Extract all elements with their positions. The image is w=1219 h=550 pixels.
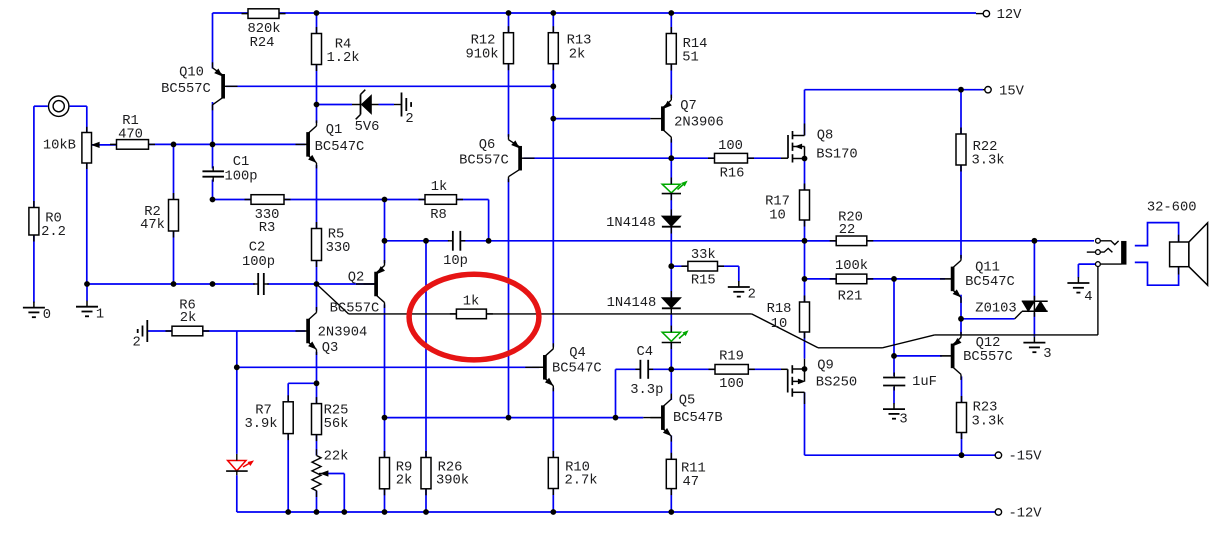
svg-text:10: 10: [771, 317, 788, 332]
svg-text:BC547C: BC547C: [552, 361, 602, 376]
svg-text:3.3k: 3.3k: [971, 413, 1004, 429]
svg-text:1uF: 1uF: [912, 375, 937, 390]
svg-text:3.9k: 3.9k: [244, 416, 277, 432]
svg-text:2N3904: 2N3904: [318, 325, 368, 340]
svg-text:33k: 33k: [691, 247, 716, 263]
svg-text:BC547B: BC547B: [673, 411, 723, 426]
svg-text:1k: 1k: [431, 179, 448, 195]
svg-text:C2: C2: [249, 240, 266, 255]
svg-text:470: 470: [118, 127, 143, 142]
svg-text:100p: 100p: [224, 169, 257, 184]
svg-text:R19: R19: [719, 349, 744, 364]
svg-text:10kB: 10kB: [43, 137, 76, 153]
svg-text:56k: 56k: [324, 416, 349, 432]
svg-text:R24: R24: [250, 36, 275, 51]
svg-text:2k: 2k: [180, 310, 197, 326]
svg-text:Q2: Q2: [348, 270, 365, 285]
svg-text:BC557C: BC557C: [161, 82, 211, 97]
svg-text:Q5: Q5: [679, 393, 696, 408]
svg-text:12V: 12V: [997, 8, 1023, 23]
svg-text:R18: R18: [767, 302, 792, 317]
svg-text:BS250: BS250: [816, 375, 857, 390]
svg-text:100: 100: [718, 139, 743, 154]
svg-text:Q6: Q6: [479, 138, 496, 153]
svg-text:47: 47: [683, 475, 700, 490]
svg-text:Q1: Q1: [326, 123, 343, 138]
svg-text:3: 3: [899, 413, 907, 428]
svg-text:R8: R8: [430, 208, 447, 223]
svg-text:3: 3: [1043, 347, 1051, 362]
svg-text:32-600: 32-600: [1147, 201, 1197, 216]
svg-text:5V6: 5V6: [355, 120, 380, 135]
svg-text:C4: C4: [637, 345, 654, 360]
svg-text:330: 330: [326, 241, 351, 256]
svg-text:4: 4: [1084, 290, 1092, 305]
svg-text:910k: 910k: [465, 46, 498, 62]
svg-text:15V: 15V: [999, 84, 1025, 99]
svg-text:R12: R12: [471, 33, 496, 48]
svg-text:100: 100: [719, 377, 744, 392]
svg-text:-15V: -15V: [1008, 450, 1042, 465]
svg-text:22k: 22k: [324, 448, 349, 464]
svg-text:BC557C: BC557C: [330, 301, 380, 316]
svg-text:22: 22: [839, 223, 856, 238]
svg-text:0: 0: [43, 308, 51, 323]
svg-text:2: 2: [405, 112, 413, 127]
svg-text:Q10: Q10: [179, 65, 204, 80]
svg-text:Q12: Q12: [976, 336, 1001, 351]
svg-text:R23: R23: [973, 400, 998, 415]
svg-text:R13: R13: [567, 33, 592, 48]
svg-text:1N4148: 1N4148: [606, 216, 656, 231]
svg-text:Q4: Q4: [569, 346, 586, 361]
svg-text:2: 2: [133, 335, 141, 350]
svg-text:10: 10: [769, 208, 786, 223]
svg-text:R3: R3: [259, 221, 276, 236]
svg-text:Q7: Q7: [680, 99, 697, 114]
svg-text:Z0103: Z0103: [975, 302, 1016, 317]
svg-text:1.2k: 1.2k: [326, 50, 359, 66]
svg-text:2N3906: 2N3906: [674, 115, 724, 130]
svg-text:-12V: -12V: [1008, 506, 1042, 521]
svg-text:1N4148: 1N4148: [607, 296, 657, 311]
svg-text:2: 2: [748, 288, 756, 303]
svg-text:51: 51: [682, 50, 699, 65]
svg-text:2.7k: 2.7k: [564, 472, 597, 488]
svg-text:C1: C1: [233, 155, 250, 170]
svg-text:1: 1: [96, 307, 104, 322]
svg-text:BC557C: BC557C: [963, 350, 1013, 365]
svg-text:100p: 100p: [242, 255, 275, 270]
svg-text:Q11: Q11: [975, 260, 1000, 275]
svg-text:3.3p: 3.3p: [630, 383, 663, 398]
svg-text:10p: 10p: [443, 254, 468, 269]
svg-text:100k: 100k: [835, 258, 868, 274]
svg-text:2k: 2k: [569, 46, 586, 62]
svg-text:3.3k: 3.3k: [971, 152, 1004, 168]
svg-text:BS170: BS170: [816, 148, 857, 163]
svg-text:R21: R21: [838, 289, 863, 304]
svg-text:R15: R15: [691, 274, 716, 289]
svg-text:2k: 2k: [396, 472, 413, 488]
svg-text:820k: 820k: [247, 21, 280, 37]
svg-text:Q8: Q8: [817, 128, 834, 143]
svg-text:BC547C: BC547C: [965, 275, 1015, 290]
svg-text:R17: R17: [765, 194, 790, 209]
svg-text:390k: 390k: [436, 472, 469, 488]
svg-text:1k: 1k: [463, 293, 480, 309]
svg-text:47k: 47k: [140, 217, 165, 233]
svg-text:BC547C: BC547C: [315, 140, 365, 155]
svg-text:2.2: 2.2: [41, 225, 66, 240]
svg-text:R16: R16: [720, 166, 745, 181]
svg-text:Q3: Q3: [322, 341, 339, 356]
svg-text:Q9: Q9: [817, 358, 834, 373]
svg-text:BC557C: BC557C: [459, 153, 509, 168]
